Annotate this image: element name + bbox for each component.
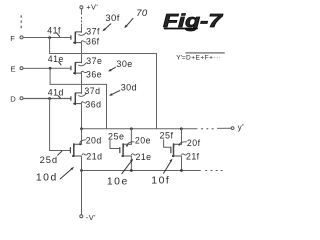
leader 41f [57, 33, 60, 37]
leader to 36d [81, 102, 86, 103]
transistor 21d gate bar [69, 148, 71, 153]
output cell e : drain lead from rail [130, 129, 132, 144]
svg-text:25f: 25f [160, 131, 174, 141]
leader to 37d [79, 93, 87, 96]
svg-text:41d: 41d [48, 87, 64, 97]
wire 25f node to gate of 21f [164, 140, 171, 148]
wire E input [23, 67, 70, 69]
leader to 21f [182, 154, 187, 155]
node F junction [48, 36, 51, 39]
svg-text:41f: 41f [47, 25, 61, 35]
transistor 36e gate bar [70, 66, 72, 70]
transistor pair 37e/36e channel [74, 63, 76, 74]
svg-text:20e: 20e [135, 135, 151, 145]
terminal -V' circle [80, 215, 83, 218]
wire E branch horizontal [50, 83, 106, 85]
svg-text:F: F [10, 34, 15, 43]
svg-text:10e: 10e [107, 177, 129, 188]
leader to 21d [82, 154, 87, 155]
wire +V' lead with dash-dot [81, 9, 83, 14]
wire 21f source to bottom rail [181, 156, 183, 171]
svg-text:30d: 30d [121, 82, 137, 92]
leader to 36e [81, 71, 86, 72]
svg-text:25d: 25d [40, 154, 58, 165]
mid rail solid to terminal [218, 127, 231, 129]
leader 25d [58, 151, 62, 155]
wire D input [23, 98, 70, 100]
wire 21d source to bottom rail [81, 156, 83, 170]
arrow 10d [60, 168, 72, 179]
title FIG-7 [163, 10, 224, 31]
svg-text:36d: 36d [85, 99, 101, 109]
svg-text:30e: 30e [116, 59, 132, 69]
terminal y' circle [231, 127, 234, 130]
leader to 20e [127, 142, 134, 146]
leader to 20f [179, 142, 186, 145]
transistor 36d gate bar [70, 97, 72, 101]
output cell f : drain lead from rail [181, 129, 183, 144]
wire to -V' terminal [81, 171, 83, 215]
transistor pair 37d/36d channel [74, 93, 76, 104]
node: bottom rail junctions [80, 169, 83, 172]
svg-text:37d: 37d [84, 86, 100, 96]
svg-text:y': y' [238, 123, 245, 132]
svg-text:21f: 21f [186, 151, 200, 161]
leader to 20d [80, 140, 86, 144]
transistor 20f drain stub [174, 144, 182, 146]
svg-text:21d: 21d [86, 151, 102, 161]
transistor 21f source stub [173, 155, 182, 157]
svg-text:37e: 37e [86, 56, 102, 66]
leader 41e [59, 62, 61, 65]
transistor 37d drain stub [76, 93, 82, 95]
svg-text:21e: 21e [136, 152, 152, 162]
leader to 36f [81, 41, 86, 42]
svg-text:D: D [10, 95, 16, 104]
arrow 10f [164, 160, 172, 173]
transistor 36f gate bar [70, 36, 72, 40]
svg-text:70: 70 [136, 8, 148, 19]
svg-text:10f: 10f [151, 176, 170, 187]
transistor 21e gate bar [119, 148, 121, 153]
wire 36e source to 37d drain [81, 73, 83, 93]
node: rail junctions [80, 127, 83, 130]
mid rail wire [81, 128, 197, 130]
mid rail dotted continuation [202, 128, 214, 130]
transistor 21e source stub [122, 155, 131, 157]
svg-text:+V': +V' [86, 2, 98, 11]
transistor 20e drain stub [124, 144, 132, 146]
transistor pair 20d/21d channel [73, 144, 75, 156]
svg-text:41e: 41e [48, 54, 64, 64]
arrow 30d [111, 91, 120, 95]
bottom rail wire [82, 170, 201, 172]
wire F branch horizontal [50, 53, 157, 55]
wire D branch down [49, 99, 51, 151]
ellipsis dots above F terminal [20, 16, 22, 28]
wire E branch vertical to rail [106, 84, 108, 128]
svg-text:36e: 36e [86, 69, 102, 79]
transistor pair 20f/21f channel [173, 144, 175, 156]
terminal D circle [20, 97, 23, 100]
output cell d : drain lead from rail [81, 129, 83, 144]
leader to 37f [79, 32, 87, 35]
svg-text:10d: 10d [36, 173, 58, 184]
transistor 36d source stub [74, 103, 81, 105]
transistor 21d source stub [73, 155, 82, 157]
arrow 30f [104, 24, 111, 30]
wire 36d source down to mid rail [81, 104, 83, 129]
svg-text:36f: 36f [86, 37, 100, 47]
arrows and leaders [57, 18, 173, 179]
+V' supply terminal [80, 6, 83, 9]
transistor 37e drain stub [76, 62, 82, 64]
svg-text:20f: 20f [187, 138, 201, 148]
node E junction [49, 67, 52, 70]
transistor 21f gate bar [170, 147, 172, 152]
svg-text:-V': -V' [86, 213, 96, 222]
svg-text:E: E [11, 65, 17, 74]
transistor pair 37f/36f channel [74, 32, 76, 43]
terminal E circle [20, 67, 23, 70]
transistor 37f drain stub [76, 32, 82, 34]
leader 41d [58, 96, 60, 98]
leader to 21e [132, 154, 137, 155]
svg-text:Y'=: Y'= [176, 55, 186, 62]
leader to 37e [79, 63, 87, 66]
node D junction [48, 97, 51, 100]
transistor pair 20e/21e channel [122, 144, 124, 156]
bottom rail dotted continuation [206, 170, 223, 172]
transistor 20d drain stub [74, 144, 81, 146]
arrow 10e [122, 160, 132, 173]
svg-text:25e: 25e [108, 131, 125, 141]
svg-text:37f: 37f [86, 26, 100, 36]
arrow 30e [110, 67, 115, 70]
arrow 70 [126, 18, 133, 26]
terminal F circle [20, 36, 23, 39]
wire 21e source to bottom rail [130, 156, 132, 171]
svg-text:30f: 30f [105, 13, 120, 24]
wire D branch horizontal to gate of 21d [50, 150, 71, 152]
wire F branch vertical to rail [156, 54, 158, 129]
wire 25e node to gate of 21e [110, 140, 120, 148]
transistor 36f source stub [74, 42, 81, 44]
transistor 36e source stub [74, 72, 81, 74]
svg-text:20d: 20d [86, 136, 102, 146]
wire E branch down [49, 68, 51, 84]
equation Y'=D+E+F+... [176, 53, 224, 62]
svg-text:D+E+F+···: D+E+F+··· [186, 55, 221, 62]
wire F input [23, 37, 70, 39]
wire F branch down [49, 38, 51, 54]
wire 36f source to 37e drain [81, 43, 83, 63]
